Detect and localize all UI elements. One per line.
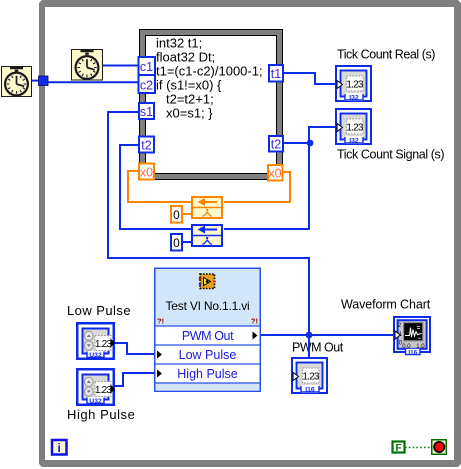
wire High Pulse control to subVI [115,373,156,386]
svg-text:x0=s1; }: x0=s1; } [166,106,213,121]
boolean constant F [393,442,405,455]
stop condition terminal [432,440,447,455]
svg-text:float32 Dt;: float32 Dt; [156,50,215,65]
wire x0 right to orange feedback input [224,172,290,202]
terminal c1 [139,57,156,75]
wire t2 right to junction [284,142,310,144]
svg-text:?!: ?! [157,317,164,326]
svg-text:int32 t1;: int32 t1; [156,36,202,51]
label Tick Count Signal (s) [337,148,444,162]
waveform chart indicator icon [394,317,430,356]
tunnel on loop border [39,76,49,86]
svg-text:t1=(c1-c2)/1000-1;: t1=(c1-c2)/1000-1; [156,64,263,79]
constant 0 (blue) [171,234,182,251]
svg-text:t1: t1 [271,67,281,81]
svg-text:Tick Count Signal (s): Tick Count Signal (s) [337,148,444,162]
wire clock2 to c1 [102,65,138,67]
terminal x0 right [268,165,283,181]
terminal c2 [139,75,156,93]
svg-text:?!: ?! [251,317,258,326]
subVI Test VI No.1.1.vi [155,268,261,391]
svg-text:x0: x0 [140,166,153,180]
wire junction down to t2 feedback node input [224,142,309,229]
svg-text:High Pulse: High Pulse [177,367,237,381]
wire junction down to PWM Out indicator [308,336,310,357]
svg-text:I32: I32 [349,95,359,102]
wire orange 0 constant to feedback node [182,213,192,215]
formula node frame [139,29,283,180]
feedback node blue (t2) [191,225,223,246]
terminal x0 left [139,164,154,180]
svg-text:Test VI No.1.1.vi: Test VI No.1.1.vi [166,299,250,313]
svg-text:PWM Out: PWM Out [182,329,234,343]
wire junction to Tick Count Signal indicator [309,127,337,144]
label Low Pulse [67,303,131,318]
svg-text:1.23: 1.23 [346,123,364,134]
svg-text:I32: I32 [349,138,359,145]
control Low Pulse icon [77,323,115,359]
svg-text:x0: x0 [268,167,281,181]
label High Pulse [67,407,135,422]
svg-text:F: F [395,443,401,454]
wire orange feedback output to x0 left [128,171,191,202]
Tick Count function clock icon inside loop [72,50,103,81]
svg-text:1.23: 1.23 [302,372,320,383]
svg-text:s1: s1 [140,105,153,119]
Tick Count function clock icon outside loop [2,67,32,97]
wire blue 0 constant to feedback node [182,241,192,243]
label Waveform Chart [341,298,431,312]
svg-text:t2=t2+1;: t2=t2+1; [166,92,214,107]
wire PWM Out output to Waveform Chart [260,334,393,336]
svg-text:if (s1!=x0) {: if (s1!=x0) { [156,78,222,93]
constant 0 (orange) [171,206,182,223]
wire Low Pulse control to subVI [115,343,156,354]
svg-text:1.23: 1.23 [346,80,364,91]
svg-text:PWM Out: PWM Out [292,341,344,355]
wire t1 to Tick Count Real [283,73,337,84]
svg-text:c2: c2 [140,79,153,93]
svg-text:t2: t2 [141,139,151,153]
svg-text:Low Pulse: Low Pulse [67,303,131,318]
label PWM Out [292,341,344,355]
svg-text:Low Pulse: Low Pulse [179,348,237,362]
junction dot PWM [306,332,313,339]
label Tick Count Real (s) [337,48,435,62]
svg-text:c1: c1 [140,60,153,74]
terminal t2 left [139,137,154,153]
svg-text:I16: I16 [305,387,315,394]
svg-text:I16: I16 [408,349,417,356]
svg-text:1.23: 1.23 [95,339,113,350]
wire clock1 to tunnel to c2 [32,81,138,83]
svg-text:U32: U32 [89,352,102,359]
feedback node orange (x0) [191,197,223,218]
indicator Tick Count Signal icon [336,109,371,145]
svg-text:i: i [58,441,61,455]
indicator PWM Out icon [292,358,327,394]
wire feedback output to t2 left [120,145,191,229]
svg-text:Waveform Chart: Waveform Chart [341,298,431,312]
svg-text:0: 0 [173,236,180,250]
indicator Tick Count Real icon [336,66,371,102]
wire junction up to s1 terminal [108,112,309,334]
svg-text:1.23: 1.23 [95,385,113,396]
terminal t2 right [269,136,283,152]
formula node code text [156,36,263,121]
control High Pulse icon [77,369,115,405]
terminal t1 right [269,65,283,82]
svg-text:0: 0 [173,208,180,222]
svg-text:t2: t2 [271,138,281,152]
wire F to stop button (dotted) [405,447,431,449]
iteration terminal i [52,440,67,455]
terminal s1 [139,103,154,119]
svg-text:High Pulse: High Pulse [67,407,135,422]
junction dot t2 [307,140,314,147]
svg-text:Tick Count Real (s): Tick Count Real (s) [337,48,435,62]
svg-text:U32: U32 [89,398,102,405]
